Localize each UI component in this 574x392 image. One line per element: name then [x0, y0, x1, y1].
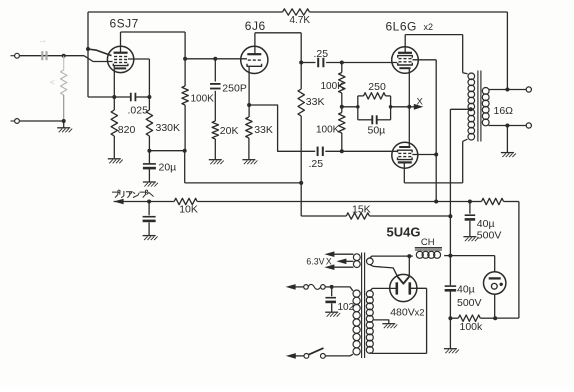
svg-text:4.7K: 4.7K	[290, 15, 311, 26]
svg-text:15K: 15K	[352, 204, 371, 216]
svg-text:6L6G: 6L6G	[386, 20, 417, 34]
svg-text:CH: CH	[421, 237, 435, 248]
svg-text:500V: 500V	[457, 297, 482, 309]
svg-text:20K: 20K	[220, 125, 239, 137]
svg-text:820: 820	[118, 124, 136, 136]
svg-text:100K: 100K	[316, 125, 340, 136]
svg-text:X: X	[326, 256, 332, 266]
svg-text:500V: 500V	[477, 230, 502, 242]
svg-text:.025: .025	[128, 105, 149, 117]
svg-text:6SJ7: 6SJ7	[110, 17, 139, 31]
svg-text:33K: 33K	[254, 124, 273, 136]
svg-text:<: <	[50, 78, 55, 87]
svg-text:40µ: 40µ	[457, 283, 475, 295]
svg-text:6J6: 6J6	[245, 19, 266, 33]
svg-text:33K: 33K	[306, 96, 325, 108]
svg-text:20µ: 20µ	[159, 162, 177, 174]
svg-text:10K: 10K	[179, 204, 198, 216]
svg-text:X: X	[417, 97, 424, 108]
svg-text:480V: 480V	[390, 306, 415, 318]
svg-text:.25: .25	[309, 158, 324, 170]
svg-text:50µ: 50µ	[368, 125, 386, 137]
svg-text:102: 102	[338, 302, 355, 313]
svg-text:100k: 100k	[460, 321, 484, 333]
svg-text:330K: 330K	[156, 122, 181, 134]
svg-text:6.3V: 6.3V	[306, 256, 324, 266]
svg-text:16Ω: 16Ω	[494, 105, 514, 117]
svg-text:40µ: 40µ	[477, 218, 495, 230]
svg-text:x2: x2	[415, 307, 425, 318]
svg-text:250: 250	[368, 81, 386, 93]
svg-text:.25: .25	[314, 48, 329, 60]
svg-text:100K: 100K	[191, 94, 215, 105]
svg-text:100K: 100K	[321, 81, 345, 92]
svg-text:5U4G: 5U4G	[387, 225, 421, 240]
svg-text:x2: x2	[424, 22, 434, 32]
svg-text:250P: 250P	[222, 82, 247, 94]
